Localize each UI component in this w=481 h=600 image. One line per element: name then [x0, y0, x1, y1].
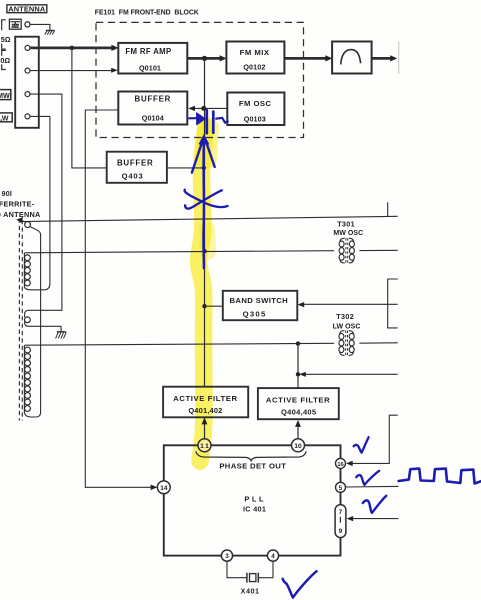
- T302 LW OSC transformer: [333, 312, 361, 356]
- T901 label text: [0, 190, 41, 219]
- svg-text:Q0101: Q0101: [139, 63, 161, 72]
- wire terminal 2 to FM RF AMP: [30, 70, 112, 72]
- pin 16 circle: [336, 458, 346, 468]
- junction dot main line y306: [202, 304, 206, 308]
- svg-text:FM OSC: FM OSC: [239, 99, 272, 108]
- blue X stroke B: [185, 190, 228, 207]
- wire junction down to buffer Q403: [72, 48, 107, 168]
- svg-text:BAND SWITCH: BAND SWITCH: [230, 296, 289, 305]
- junction dot on RF-MIX wire: [202, 56, 207, 61]
- svg-text:Q404,405: Q404,405: [281, 408, 316, 417]
- junction dot OSC-buffer wire: [201, 106, 206, 111]
- wire into band switch from right: [303, 303, 397, 305]
- junction dot at Q403 output: [202, 166, 206, 170]
- pin 10 circle: [292, 439, 305, 452]
- svg-text:PHASE DET OUT: PHASE DET OUT: [219, 462, 286, 471]
- wire terminal 4 (LW) down: [30, 116, 50, 284]
- svg-text:D ANTENNA: D ANTENNA: [0, 210, 41, 219]
- LW label box: [0, 113, 12, 123]
- svg-text:LW OSC: LW OSC: [333, 323, 361, 330]
- wire from pin 5: [346, 485, 399, 488]
- BUFFER Q403 box: [107, 152, 167, 183]
- blue up-arrow right leg: [207, 144, 215, 167]
- svg-text:9: 9: [339, 528, 343, 535]
- svg-text:Q0102: Q0102: [243, 63, 265, 72]
- PLL label: [243, 494, 266, 513]
- svg-text:X401: X401: [241, 587, 260, 596]
- wire buffer Q403 output: [167, 167, 205, 169]
- wire FM MIX to filter (thick): [284, 57, 326, 60]
- T301 MW OSC transformer: [333, 219, 363, 263]
- svg-text:ACTIVE FILTER: ACTIVE FILTER: [266, 396, 330, 405]
- blue doodle capacitor plate 2: [212, 112, 215, 133]
- crystal X401: [227, 561, 273, 595]
- wire RF AMP to FM MIX (thick): [187, 57, 221, 60]
- pin 4 circle: [267, 550, 278, 561]
- antenna jack circle: [25, 22, 30, 27]
- ceramic filter box: [332, 42, 372, 74]
- ground (top): [45, 31, 55, 35]
- tap arrowhead: [16, 217, 23, 223]
- wire to pin 16: [352, 415, 398, 463]
- svg-text:T301: T301: [337, 219, 355, 228]
- main vertical line (VCO signal): [204, 58, 206, 386]
- svg-text:7: 7: [339, 509, 343, 516]
- junction dot main line y251: [202, 249, 206, 253]
- PLL IC401 box: [164, 445, 341, 555]
- whip antenna icon: [9, 19, 21, 29]
- MW tap wire (long, to right edge): [19, 216, 398, 221]
- svg-text:Q0103: Q0103: [244, 115, 266, 124]
- ferrite rod (dashed pair): [19, 219, 22, 421]
- ferrite winding W3: [24, 345, 40, 417]
- junction dot FM antenna wire: [70, 46, 75, 51]
- svg-text:0Ω: 0Ω: [0, 56, 10, 65]
- FM MIX Q0102 box: [226, 42, 284, 74]
- BAND SWITCH Q305 box: [223, 291, 297, 320]
- svg-text:Q305: Q305: [243, 309, 267, 318]
- ferrite winding W2: [24, 253, 50, 290]
- blue doodle diode triangle: [197, 113, 206, 125]
- svg-text:LW: LW: [0, 116, 9, 123]
- ground (ferrite): [56, 332, 67, 339]
- ground stub at MW tap: [60, 326, 62, 331]
- svg-text:ACTIVE FILTER: ACTIVE FILTER: [173, 394, 237, 403]
- svg-text:BUFFER: BUFFER: [135, 95, 172, 104]
- stub up at right end of MW tap wire: [387, 202, 389, 216]
- svg-text:BUFFER: BUFFER: [117, 159, 154, 168]
- antenna terminal connector box: [15, 37, 39, 128]
- yellow highlighter main stroke: [199, 127, 207, 461]
- svg-text:4: 4: [271, 553, 275, 560]
- blue check near pin 16: [354, 437, 369, 452]
- svg-text:Q403: Q403: [122, 172, 144, 181]
- junction dot LW wire x298: [296, 341, 300, 345]
- blue check at crystal: [283, 571, 317, 597]
- yellow highlighter top blob: [207, 128, 209, 158]
- blue vertical trace line: [202, 140, 205, 268]
- svg-text:5Ω: 5Ω: [1, 35, 11, 44]
- svg-text:T302: T302: [336, 312, 354, 321]
- ferrite MW tap loop: [25, 310, 62, 326]
- MW label box: [0, 90, 11, 100]
- svg-text:16: 16: [337, 462, 344, 468]
- 75 ohm bracket label: [1, 20, 11, 49]
- faint page crease line: [398, 42, 400, 75]
- ACTIVE FILTER Q401,402 box: [163, 387, 248, 418]
- terminal 4 circle: [25, 114, 30, 119]
- svg-text:90I: 90I: [2, 190, 12, 198]
- terminal 1 circle: [25, 45, 30, 50]
- svg-text:FM RF AMP: FM RF AMP: [125, 47, 171, 56]
- pin 11 circle: [198, 439, 211, 452]
- svg-text:Q401,402: Q401,402: [188, 406, 222, 415]
- wire buffer Q0104 output down to PLL pin 14: [85, 110, 151, 487]
- vertical line x298 to active filter 2: [297, 344, 299, 389]
- FM RF AMP Q0101 box: [118, 43, 187, 74]
- svg-text:5: 5: [339, 485, 343, 492]
- pin 3 circle: [221, 550, 232, 561]
- filter output wire (thick): [372, 57, 392, 60]
- MW OSC wire (long) left part: [25, 251, 335, 253]
- 300 ohm bracket label: [0, 50, 10, 69]
- blue ink layer: [185, 110, 481, 597]
- svg-text:Q0104: Q0104: [142, 113, 164, 122]
- wire FM OSC to BUFFER Q0104: [195, 107, 228, 109]
- svg-text:FM MIX: FM MIX: [240, 48, 270, 57]
- wire W1 down-link: [40, 234, 42, 413]
- LW OSC wire right part: [359, 342, 397, 344]
- svg-text:FE101 FM FRONT-END BLOCK: FE101 FM FRONT-END BLOCK: [95, 10, 199, 17]
- highlighter layer: [199, 127, 209, 461]
- junction dot x298 y374: [296, 372, 300, 376]
- svg-text:1 1: 1 1: [200, 443, 209, 450]
- blue square wave: [399, 469, 481, 484]
- blue up-arrow head: [199, 135, 208, 144]
- blue doodle capacitor dash: [189, 117, 196, 119]
- svg-text:FERRITE-: FERRITE-: [0, 199, 35, 208]
- blue check near pin 5: [356, 471, 379, 485]
- blue check near pins 7-9: [363, 496, 386, 513]
- wire FM antenna (thick) to FM RF AMP: [30, 47, 113, 50]
- blue up-arrow left leg: [192, 144, 202, 172]
- svg-text:MW OSC: MW OSC: [333, 230, 363, 237]
- svg-text:10: 10: [294, 443, 302, 450]
- terminal 3 circle: [25, 92, 30, 97]
- ACTIVE FILTER Q404,405 box: [258, 388, 339, 419]
- wire band switch to main line: [205, 305, 223, 307]
- svg-text:14: 14: [160, 485, 168, 492]
- svg-text:MW: MW: [0, 91, 10, 100]
- wire y374 with arrow to x298 line: [305, 373, 398, 375]
- pin 5 circle: [336, 482, 346, 492]
- blue doodle tail stroke: [216, 118, 228, 123]
- ferrite winding W1 (FM loop): [22, 221, 41, 235]
- pins 7-9 stadium: [335, 505, 346, 538]
- blue doodle capacitor plate 1: [205, 110, 208, 133]
- terminal 2 circle: [25, 68, 30, 73]
- svg-text:ANTENNA: ANTENNA: [8, 4, 46, 13]
- wire pin10 up to active filter 2: [297, 425, 299, 439]
- wire jack to ground: [30, 24, 50, 30]
- FM OSC Q0103 box: [227, 93, 284, 126]
- yellow highlighter mid bulge: [207, 230, 208, 252]
- wire pin11 up to active filter 1: [204, 424, 206, 439]
- svg-text:3: 3: [225, 553, 229, 560]
- wire terminal 3 (MW) down to ferrite tap: [29, 94, 62, 310]
- LW OSC wire (long) left part: [25, 343, 335, 345]
- ANTENNA label box: [7, 4, 47, 13]
- phase det out brace: [196, 451, 306, 460]
- MW OSC wire right part: [359, 249, 397, 251]
- FE101 FM front-end dashed block: [96, 22, 304, 137]
- svg-text:PLL: PLL: [244, 494, 266, 503]
- svg-text:IC 401: IC 401: [243, 505, 266, 514]
- pin 14 circle: [157, 481, 170, 494]
- blue X stroke A: [185, 190, 222, 208]
- right-edge bracket wire: [388, 279, 398, 328]
- wire into pins 7-9: [353, 518, 399, 520]
- BUFFER Q0104 box: [118, 92, 187, 125]
